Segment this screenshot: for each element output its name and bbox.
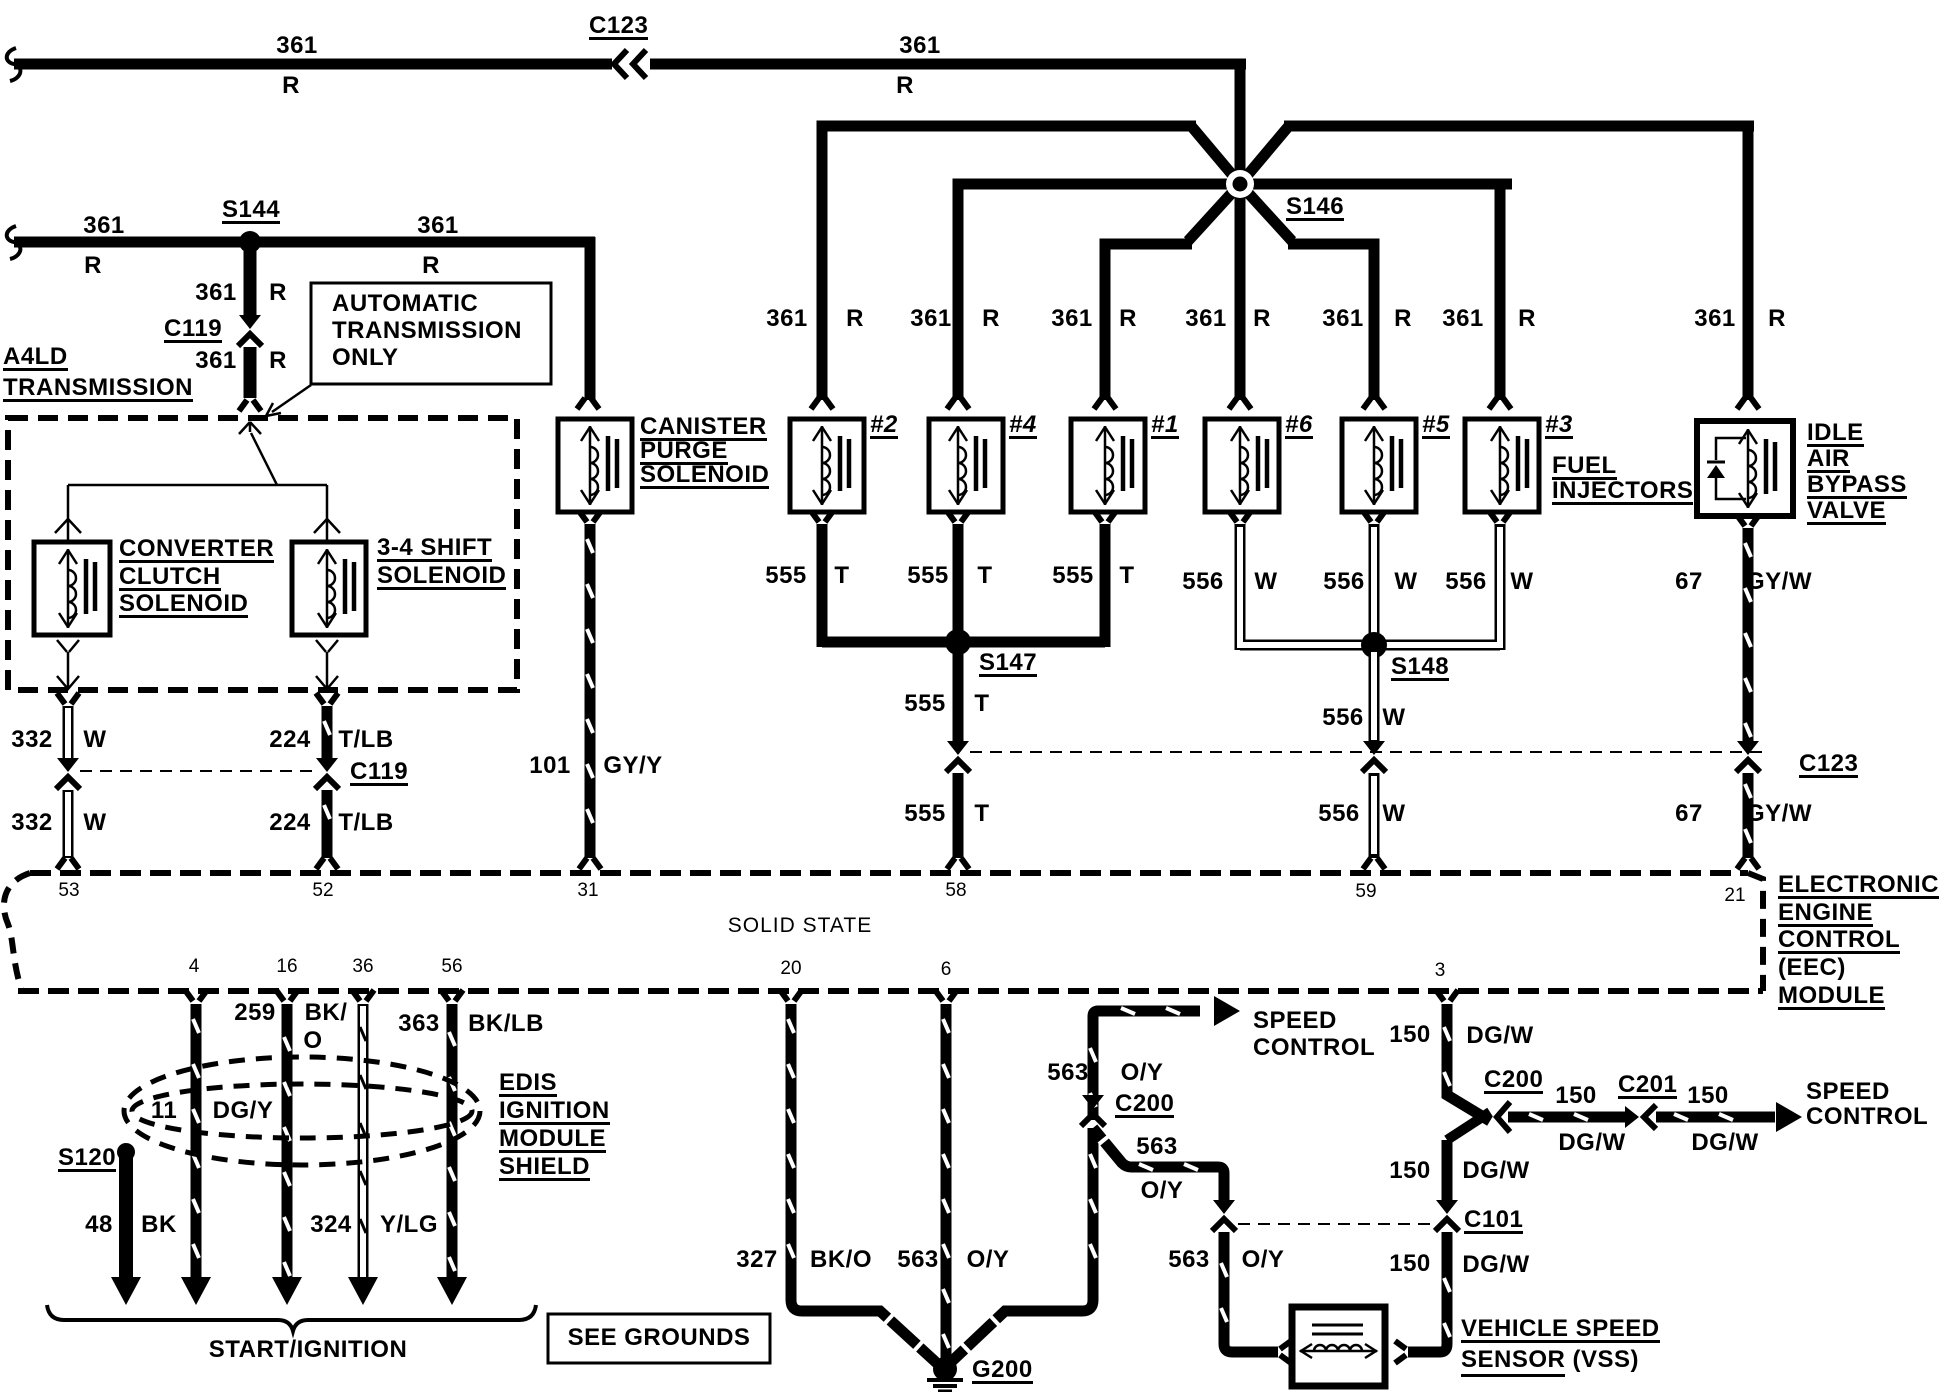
label 67 — [1675, 802, 1703, 825]
connector C119 label (lower) — [350, 760, 408, 786]
wire 555 T from injector #4 — [947, 511, 969, 522]
wire 555 T from S147 to C123 — [953, 642, 964, 744]
label T — [974, 802, 989, 825]
wire 563 O/Y to speed control (upper) — [1093, 1011, 1200, 1120]
wire 555 T from injector #2 — [811, 511, 833, 522]
EEC pin 21 — [1724, 883, 1745, 909]
label DG/W — [1691, 1131, 1758, 1154]
label R — [84, 254, 102, 277]
wire 150 DG/W from C101 to VSS — [1408, 1232, 1447, 1352]
label W — [1382, 706, 1405, 729]
wire: 361 R feed (S144 row) — [7, 226, 21, 259]
connector C101 label — [1464, 1208, 1523, 1234]
label W — [1510, 570, 1533, 593]
speed control label (right) — [1806, 1080, 1890, 1103]
label T — [1119, 564, 1134, 587]
label 332 — [11, 811, 53, 834]
EDIS ignition module shield label — [499, 1071, 557, 1097]
EEC module label — [1778, 873, 1939, 899]
label 101 — [529, 754, 571, 777]
label O/Y — [967, 1248, 1010, 1271]
wire 563 O/Y branch from C200 to G200 — [950, 1128, 1093, 1363]
label W — [1382, 802, 1405, 825]
wire 224 T/LB (3-4 shift to EEC pin 52) — [316, 693, 338, 704]
connector flare at injector feed — [1094, 398, 1116, 409]
label DG/W — [1466, 1024, 1533, 1047]
wire 556 W from injector #6 — [1229, 511, 1251, 522]
canister purge solenoid label — [640, 415, 767, 441]
wire: 361 R from S144 down to C119 — [244, 242, 257, 315]
splice S120 label — [58, 1146, 116, 1172]
wire to idle air bypass valve (361 R) — [1240, 127, 1288, 184]
idle air bypass valve diode branch — [1716, 438, 1746, 499]
label 224 — [269, 811, 311, 834]
wire 150 DG/W C201 to speed control — [1656, 1112, 1775, 1123]
label R — [1768, 307, 1786, 330]
label R — [1394, 307, 1412, 330]
label T/LB — [338, 811, 393, 834]
idle air bypass valve box — [1697, 421, 1793, 516]
injector #4 label — [1009, 413, 1037, 439]
EDIS ignition module shield ellipse outer — [124, 1057, 480, 1165]
label 361 (top wire right) — [899, 34, 941, 57]
label 563 — [1047, 1061, 1089, 1084]
wire 563 O/Y from C101 to VSS — [1224, 1232, 1278, 1352]
connector C101 (inline on 563 O/Y) — [1213, 1200, 1235, 1214]
ground G200 label — [972, 1358, 1033, 1384]
EEC module top dashed edge — [30, 870, 1748, 876]
label 361 — [910, 307, 952, 330]
wire 327 BK/O (EEC pin 20 to G200) — [780, 990, 802, 1001]
label 555 — [904, 692, 946, 715]
connector C101 (inline on 150 DG/W) — [1436, 1200, 1458, 1214]
label 48 — [85, 1213, 113, 1236]
connector C119 (inline, on 361 R) — [239, 315, 261, 329]
label DG/W — [1558, 1131, 1625, 1154]
connector C201 (inline) — [1625, 1106, 1639, 1128]
label 67 — [1675, 570, 1703, 593]
EEC pin 52 — [312, 878, 333, 904]
label O/Y — [1141, 1179, 1184, 1202]
label GY/Y — [603, 754, 662, 777]
wire 150 DG/W C200 to C201 — [1508, 1112, 1628, 1123]
EEC pin 31 — [577, 878, 598, 904]
start/ignition label — [209, 1338, 408, 1361]
splice S144 label — [222, 198, 280, 224]
label T — [977, 564, 992, 587]
wire: 361 R from C123 to S146 splice — [650, 59, 1246, 70]
see grounds box — [548, 1314, 770, 1363]
injector #6 label — [1285, 413, 1313, 439]
connector C200 label (right) — [1484, 1068, 1543, 1094]
label O/Y — [1121, 1061, 1164, 1084]
connector C119 line (lower) — [80, 770, 315, 772]
3-4 shift solenoid box — [292, 542, 366, 635]
splice S147 label — [979, 651, 1037, 677]
label W — [83, 728, 106, 751]
EEC pin 58 — [945, 878, 966, 904]
thin leads below solenoids — [57, 640, 79, 652]
EEC pin 16 — [276, 954, 297, 980]
connector C200 (X junction) — [1447, 1112, 1490, 1140]
note box AUTOMATIC TRANSMISSION ONLY — [311, 283, 551, 384]
wire to injector #1 (361 R) — [1188, 184, 1240, 241]
label 556 — [1182, 570, 1224, 593]
wire 556 W from S148 to C123 — [1369, 645, 1380, 744]
label O/Y — [1242, 1248, 1285, 1271]
A4LD transmission label — [3, 345, 68, 371]
connector C123 (inline on 556 W) — [1363, 741, 1385, 755]
label 361 — [195, 281, 237, 304]
wire 332 W (converter clutch to EEC pin 53) — [57, 693, 79, 704]
label 361 (top wire left) — [276, 34, 318, 57]
splice S146 center — [1226, 170, 1254, 198]
label DG/W — [1462, 1159, 1529, 1182]
bus 555 T — [822, 637, 1105, 648]
EEC pin 59 — [1355, 879, 1376, 905]
label 150 — [1555, 1084, 1597, 1107]
wire: 361 R feed (top, left of C123) — [7, 48, 21, 81]
label 361 — [83, 214, 125, 237]
EEC pin 6 — [941, 957, 952, 983]
wire 563 O/Y from C200 to C101 — [1093, 1128, 1224, 1200]
EEC pin 4 — [189, 954, 200, 980]
connector C123 label (lower) — [1799, 752, 1858, 778]
speed control label (left) — [1253, 1009, 1337, 1032]
wire 556 W from C123 to EEC pin 59 — [1369, 773, 1380, 858]
EEC pin 20 — [780, 956, 801, 982]
label R — [422, 254, 440, 277]
wire 556 W from injector #5 — [1363, 511, 1385, 522]
label 555 — [1052, 564, 1094, 587]
leader arrow from note box to A4LD entry — [272, 385, 311, 412]
canister purge solenoid box — [558, 419, 632, 512]
label 361 — [1322, 307, 1364, 330]
bus 556 W — [1240, 640, 1500, 651]
ground G200 — [933, 1357, 957, 1381]
EEC module left dashed edge — [4, 873, 30, 991]
injector #2 label — [870, 413, 898, 439]
note text — [332, 292, 478, 315]
label 555 — [904, 802, 946, 825]
label R — [1119, 307, 1137, 330]
label 361 — [195, 349, 237, 372]
label BK/LB — [468, 1012, 544, 1035]
label BK — [141, 1213, 177, 1236]
label 563 — [1136, 1135, 1178, 1158]
internal wiring to solenoids — [239, 422, 261, 434]
wire to injector #5 (361 R) — [1240, 184, 1292, 241]
fuel injector #6 box — [1205, 419, 1279, 512]
label 150 — [1389, 1252, 1431, 1275]
EEC pin 3 — [1435, 958, 1446, 984]
wire 324 Y/LG (EEC pin 36 to start/ignition) — [352, 990, 374, 1001]
fuel injector #5 box — [1342, 419, 1416, 512]
label Y/LG — [380, 1213, 438, 1236]
connector flare at A4LD transmission entry — [239, 400, 261, 411]
label 259 — [234, 1001, 276, 1024]
connector flare at injector feed — [1229, 398, 1251, 409]
label 150 — [1389, 1023, 1431, 1046]
wire: 361 R from S144 to canister purge solenoid — [250, 237, 595, 248]
label 361 — [1442, 307, 1484, 330]
vehicle speed sensor label — [1461, 1317, 1660, 1343]
label 361 — [1694, 307, 1736, 330]
label 563 — [1168, 1248, 1210, 1271]
connector C200 (inline on 563 O/Y) — [1082, 1095, 1104, 1109]
fuel injector #1 box — [1071, 419, 1145, 512]
label GY/W — [1746, 570, 1812, 593]
injector #5 label — [1422, 413, 1450, 439]
wire to injector #4 (361 R) — [958, 184, 1240, 400]
wire to injector #6 (361 R) — [1235, 180, 1246, 400]
converter clutch solenoid label — [119, 537, 274, 563]
wire 556 W from injector #3 — [1489, 511, 1511, 522]
label 361 — [1185, 307, 1227, 330]
label BK/O — [810, 1248, 872, 1271]
label 556 — [1318, 802, 1360, 825]
connector C101 line — [1238, 1223, 1432, 1225]
injector #1 label — [1151, 413, 1179, 439]
label DG/Y — [213, 1099, 274, 1122]
splice S148 label — [1391, 655, 1449, 681]
vehicle speed sensor VSS box — [1292, 1307, 1385, 1386]
wire to injector #2 (361 R) — [1192, 127, 1240, 184]
connector C200 label (left) — [1115, 1092, 1174, 1118]
wire to injector #3 (361 R) — [1240, 179, 1512, 190]
label T — [834, 564, 849, 587]
label 150 — [1389, 1159, 1431, 1182]
label R — [282, 74, 300, 97]
label 363 — [398, 1012, 440, 1035]
splice S146 label — [1286, 195, 1344, 221]
fuel injector #3 box — [1465, 419, 1539, 512]
wire 259 BK/O (EEC pin 16 to start/ignition) — [276, 990, 298, 1001]
connector flare at injector feed — [1489, 398, 1511, 409]
converter clutch solenoid box — [34, 542, 110, 635]
EDIS ignition module shield ellipse inner — [132, 1084, 472, 1138]
label 361 — [766, 307, 808, 330]
label 556 — [1322, 706, 1364, 729]
vehicle speed sensor label line 2 — [1461, 1348, 1639, 1371]
EEC module right dashed edge — [1748, 873, 1763, 991]
label T — [974, 692, 989, 715]
label DG/W — [1462, 1253, 1529, 1276]
wire 555 T from injector #1 — [1094, 511, 1116, 522]
VSS interior — [1312, 1325, 1363, 1334]
connector flare at injector feed — [947, 398, 969, 409]
label R — [846, 307, 864, 330]
label 555 — [907, 564, 949, 587]
connector C123 line (lower) — [970, 751, 1770, 753]
wire 11 DG/Y (EEC pin 4 to start/ignition) — [185, 990, 207, 1001]
label 11 — [151, 1099, 177, 1122]
label W — [83, 811, 106, 834]
wire 48 BK (S120 to start/ignition) — [119, 1152, 133, 1280]
EEC pin 56 — [441, 954, 462, 980]
label 556 — [1323, 570, 1365, 593]
wire 150 DG/W (EEC pin 3 to C200) — [1436, 990, 1458, 1001]
label O — [303, 1029, 322, 1052]
label R — [982, 307, 1000, 330]
connector C201 label — [1618, 1073, 1677, 1099]
label R — [269, 281, 287, 304]
fuel injectors label — [1552, 454, 1617, 480]
label 150 — [1687, 1084, 1729, 1107]
label R — [269, 349, 287, 372]
EEC solid state label — [728, 913, 872, 939]
connector C123 (inline on 67 GY/W) — [1737, 741, 1759, 755]
label 332 — [11, 728, 53, 751]
label 563 — [897, 1248, 939, 1271]
label R — [1518, 307, 1536, 330]
splice S147 — [945, 629, 971, 655]
wire 555 T from C123 to EEC pin 58 — [953, 773, 964, 858]
label 361 — [1051, 307, 1093, 330]
label 361 — [417, 214, 459, 237]
arrowheads at solenoid feeds — [55, 519, 81, 533]
wire 150 DG/W from C200 down to C101 — [1442, 1140, 1453, 1200]
wire 363 BK/LB (EEC pin 56 to start/ignition) — [441, 990, 463, 1001]
wire 563 O/Y (EEC pin 6 to G200) — [935, 990, 957, 1001]
EEC pin 36 — [352, 954, 373, 980]
label 324 — [310, 1213, 352, 1236]
label T/LB — [338, 728, 393, 751]
A4LD transmission dashed outline — [8, 418, 517, 690]
connector C123 (inline on 555 T) — [947, 741, 969, 755]
connector flare at injector feed — [1737, 398, 1759, 409]
idle air bypass valve label — [1807, 421, 1864, 447]
EEC pin 53 — [58, 878, 79, 904]
splice S144 — [239, 231, 261, 253]
label 327 — [736, 1248, 778, 1271]
splice S148 — [1361, 632, 1387, 658]
connector flare at injector feed — [1363, 398, 1385, 409]
fuel injector #4 box — [929, 419, 1003, 512]
fuel injector #2 box — [790, 419, 864, 512]
see grounds label — [568, 1326, 751, 1349]
wire 67 GY/W from idle air bypass valve — [1737, 515, 1759, 526]
label 556 — [1445, 570, 1487, 593]
label BK/ — [305, 1001, 348, 1024]
label 555 — [765, 564, 807, 587]
wire 101 GY/Y (canister purge to EEC pin 31) — [579, 511, 601, 522]
label 224 — [269, 728, 311, 751]
label W — [1394, 570, 1417, 593]
3-4 shift solenoid label — [377, 536, 492, 562]
connector C123 (top inline) — [614, 50, 627, 78]
label R — [896, 74, 914, 97]
injector #3 label — [1545, 413, 1573, 439]
connector flare at injector feed — [811, 398, 833, 409]
start/ignition brace — [47, 1305, 536, 1331]
connector C119 label (upper) — [164, 317, 222, 343]
label GY/W — [1746, 802, 1812, 825]
splice S120 — [117, 1143, 135, 1161]
EEC module bottom dashed edge — [18, 988, 1763, 994]
label W — [1254, 570, 1277, 593]
connector C123 label (top) — [589, 14, 648, 40]
label R — [1253, 307, 1271, 330]
